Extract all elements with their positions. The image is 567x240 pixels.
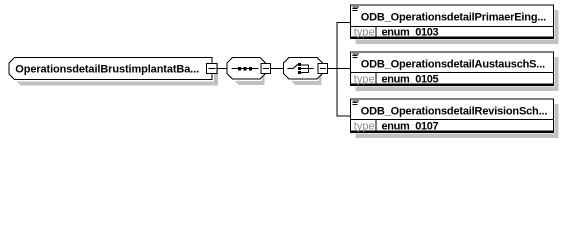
svg-text:enum_0107: enum_0107 <box>382 120 439 132</box>
svg-text:ODB_OperationsdetailRevisionSc: ODB_OperationsdetailRevisionSch... <box>361 106 548 118</box>
svg-text:ODB_OperationsdetailPrimaerEin: ODB_OperationsdetailPrimaerEing... <box>361 12 546 24</box>
wire root to sequence <box>217 68 227 69</box>
element ODB_OperationsdetailAustauschS <box>351 52 559 91</box>
wire sequence to choice <box>271 68 284 69</box>
element ODB_OperationsdetailRevisionSch <box>351 99 559 138</box>
collapse box (minus) of sequence <box>261 64 271 74</box>
collapse box (minus) of root element <box>207 64 218 74</box>
svg-text:OperationsdetailBrustimplantat: OperationsdetailBrustimplantatBa... <box>15 64 199 76</box>
wire choice to middle child <box>328 68 351 69</box>
svg-text:type: type <box>354 73 375 85</box>
svg-text:type: type <box>354 26 375 38</box>
vertical trunk wire <box>337 22 338 117</box>
wire branch to bottom child <box>337 116 351 117</box>
sequence compositor <box>227 58 266 86</box>
choice compositor <box>284 58 323 86</box>
wire branch to top child <box>337 22 351 23</box>
svg-text:enum_0105: enum_0105 <box>382 73 439 85</box>
element ODB_OperationsdetailPrimaerEing <box>351 5 559 44</box>
collapse box (minus) of choice <box>318 64 328 74</box>
svg-text:ODB_OperationsdetailAustauschS: ODB_OperationsdetailAustauschS... <box>361 59 545 71</box>
svg-text:type: type <box>354 120 375 132</box>
svg-text:enum_0103: enum_0103 <box>382 26 439 38</box>
element OperationsdetailBrustimplantatBa (root) <box>9 58 218 86</box>
